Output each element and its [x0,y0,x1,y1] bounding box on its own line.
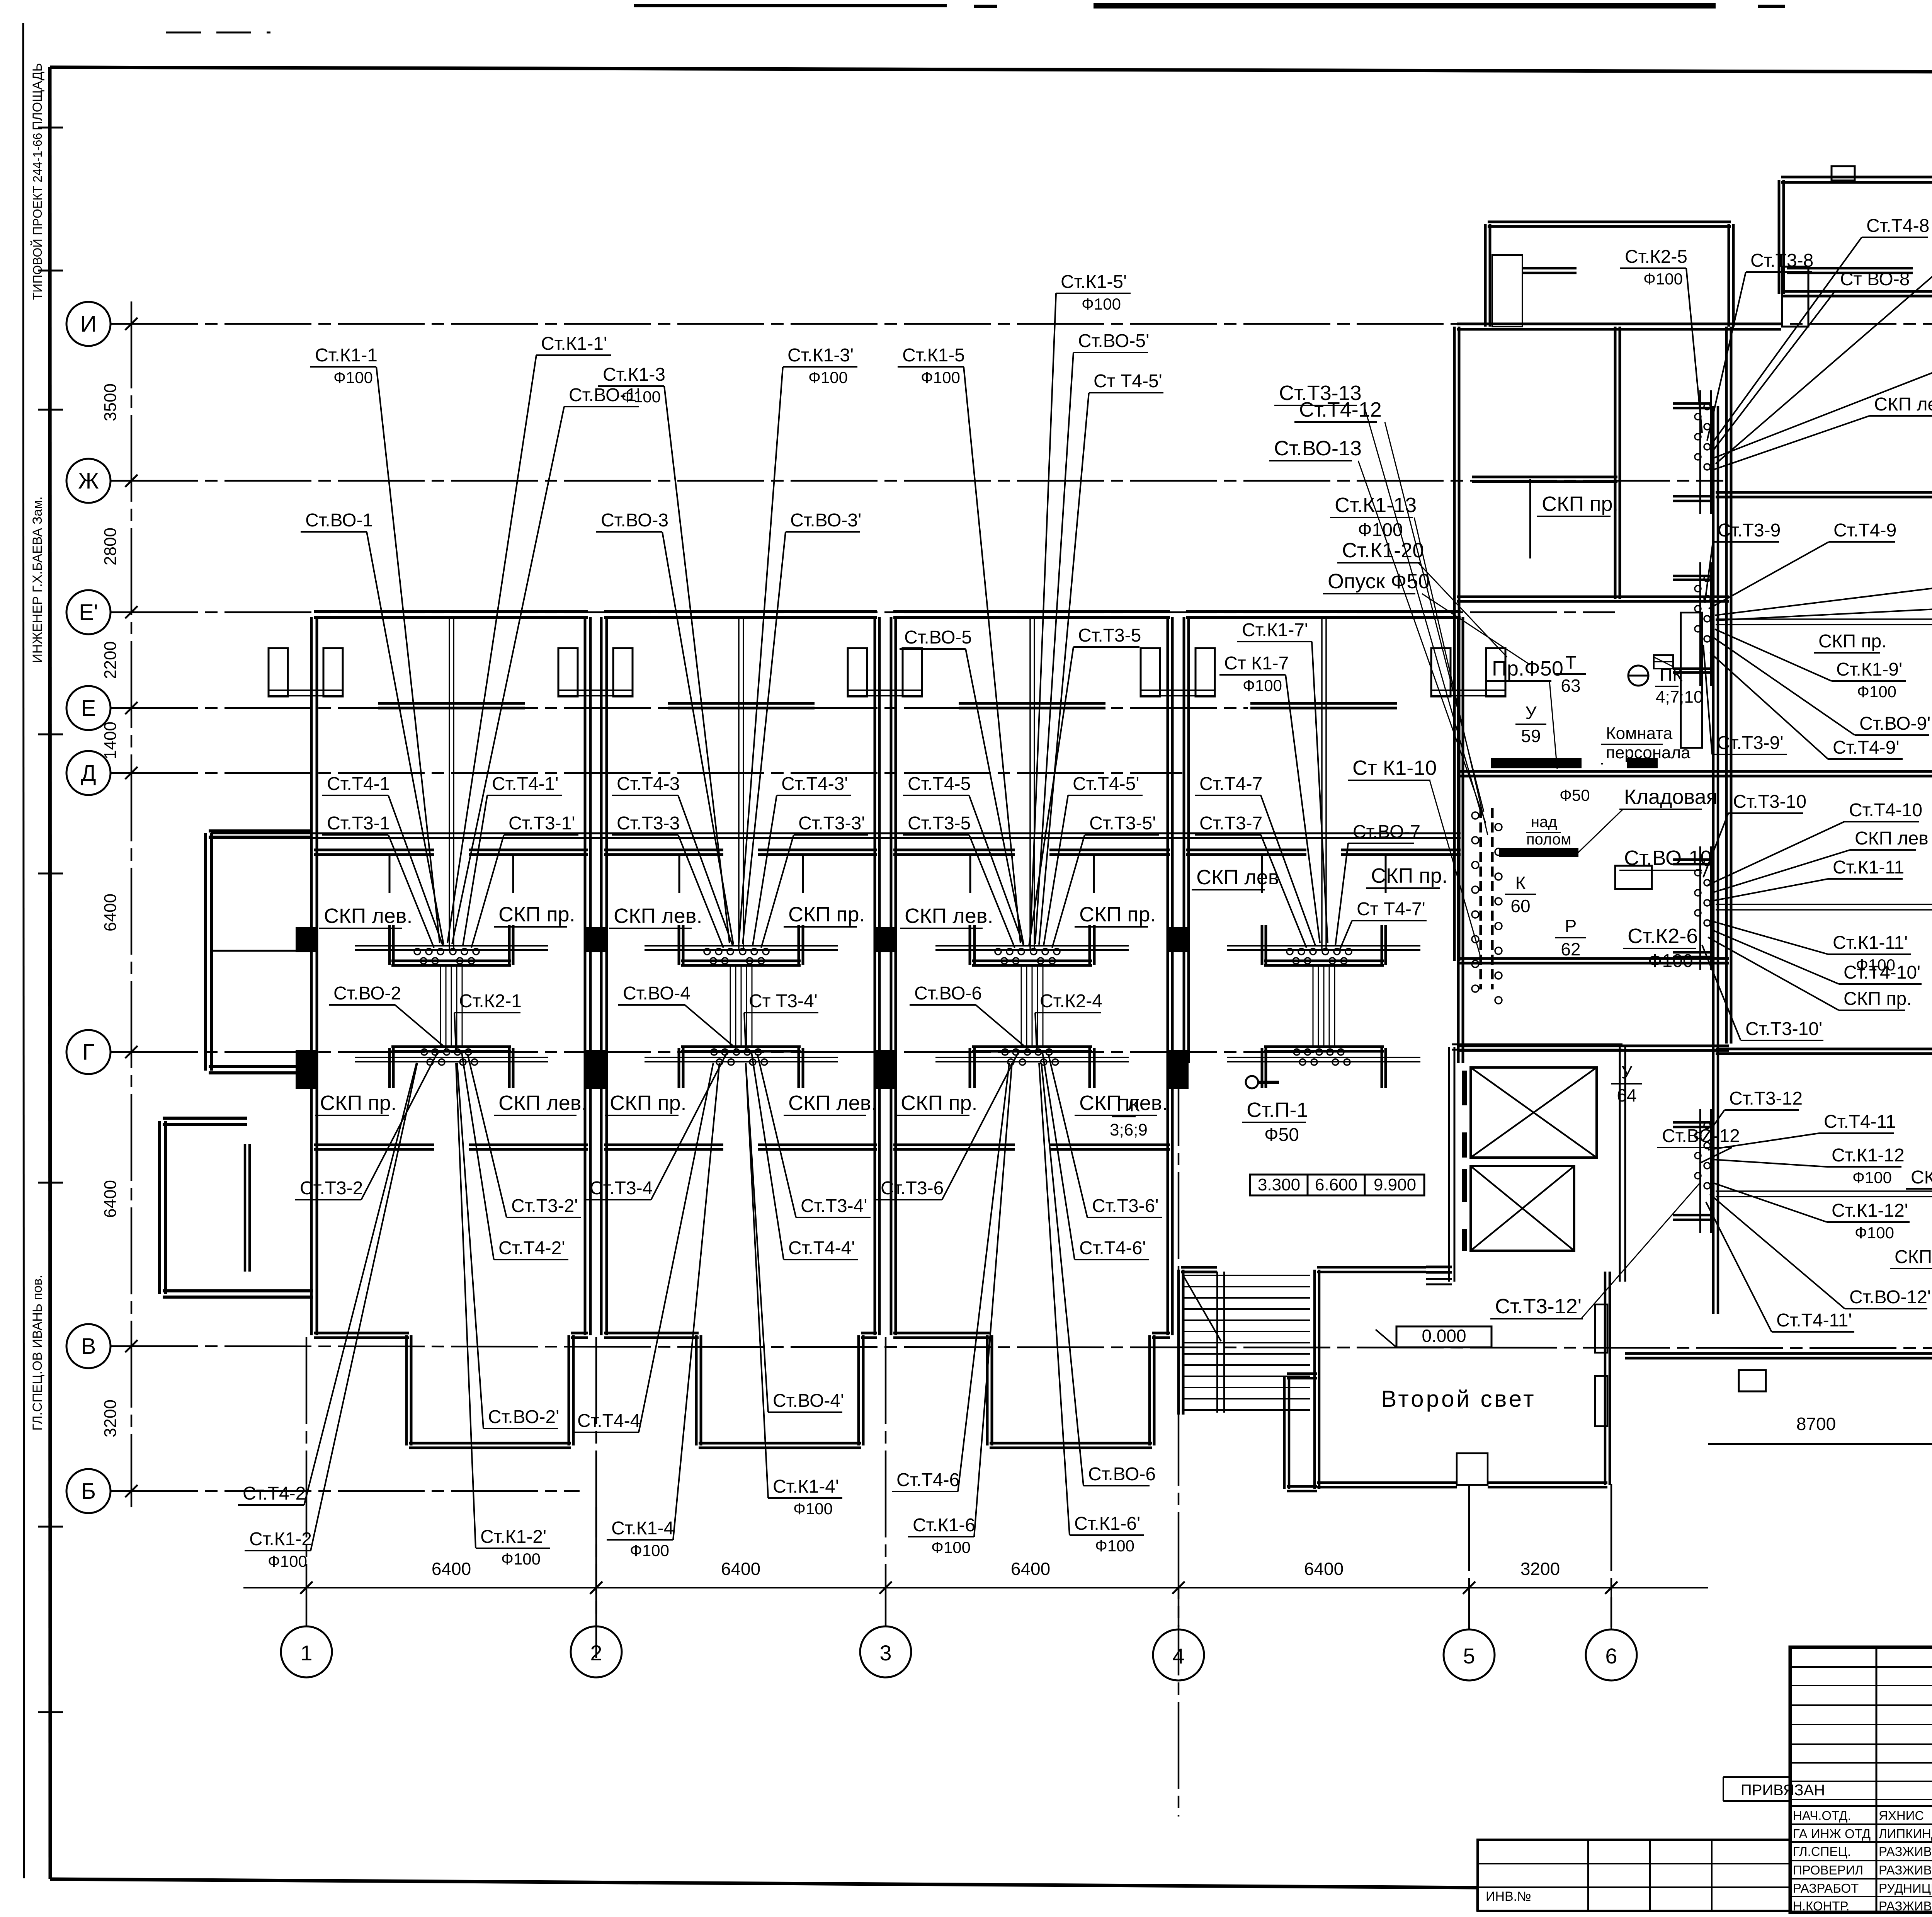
leader line Ст.К1-1 [376,367,440,943]
svg-text:6400: 6400 [101,1180,120,1218]
svg-text:Ст.Т3-2: Ст.Т3-2 [300,1178,363,1199]
svg-text:Ст.ВО-2': Ст.ВО-2' [488,1407,559,1427]
svg-text:Ст.Т3-8: Ст.Т3-8 [1750,250,1813,271]
svg-text:Ф50: Ф50 [1264,1125,1299,1145]
svg-text:Ст.К1-11': Ст.К1-11' [1833,933,1908,953]
svg-text:ПЛОЩАДЬ: ПЛОЩАДЬ [30,63,45,130]
leader line Ст.К1-5 [964,367,1020,943]
leader line Ст.ВО-3 [662,532,733,945]
svg-text:Ст.Т3-1: Ст.Т3-1 [327,813,390,834]
axis circle 5 [1444,1629,1495,1680]
module 1 walls [311,611,590,1448]
svg-text:1400: 1400 [101,722,120,759]
heavy pipe bars [1491,758,1658,889]
svg-text:Ст.Т3-6: Ст.Т3-6 [881,1178,944,1199]
svg-text:СКП лев.: СКП лев. [498,1091,587,1115]
tower block east [1779,166,1932,327]
svg-text:Ст.ВО-4: Ст.ВО-4 [623,983,690,1004]
leader line Ст.К1-1' [447,355,536,943]
svg-text:Ст.Т3-7: Ст.Т3-7 [1199,813,1262,834]
svg-text:СКП лев.: СКП лев. [1911,1167,1932,1188]
svg-text:ЯХНИС: ЯХНИС [1879,1808,1924,1823]
svg-text:Кладовая: Кладовая [1624,785,1718,809]
leader line Ст.Т3-5 [1029,647,1073,946]
svg-text:6.600: 6.600 [1315,1175,1357,1194]
svg-text:6400: 6400 [432,1559,471,1579]
dimension 8700 [1708,1414,1932,1450]
leader line Ст.Т3-2' [468,1054,507,1217]
leader line Ст.Т4-5' [1044,795,1068,945]
svg-text:Е: Е [81,696,96,721]
svg-text:Ст.К2-6: Ст.К2-6 [1628,924,1698,948]
module 4 upper riser circles [1287,948,1352,964]
axis circle Г [66,1030,111,1074]
svg-text:Ф100: Ф100 [501,1550,541,1568]
svg-text:СКП лев: СКП лев [1855,828,1929,849]
bottom dimension line [243,1559,1708,1594]
module 3 lower riser circles [1002,1049,1058,1065]
svg-text:РАЗЖИВИНА: РАЗЖИВИНА [1879,1844,1932,1859]
leader line Ст.Т3-5 [969,835,1015,948]
svg-text:Ст.Т3-13: Ст.Т3-13 [1279,381,1362,405]
svg-text:Ст.Т3-9: Ст.Т3-9 [1718,520,1781,541]
svg-text:Ст.Т3-5: Ст.Т3-5 [908,813,971,834]
svg-text:Ст.Т3-3: Ст.Т3-3 [617,813,680,834]
leader line Ст.Т3-6' [1048,1054,1087,1217]
svg-text:Р: Р [1565,916,1577,936]
axis circle Е [66,686,111,730]
svg-text:Ст.Т4-9': Ст.Т4-9' [1833,737,1900,758]
scanner edge artifacts top [634,2,1932,9]
svg-text:РАЗЖИВИНА: РАЗЖИВИНА [1879,1899,1932,1913]
svg-text:Ст.Т4-1: Ст.Т4-1 [327,774,390,794]
top wall link [1731,328,1781,331]
svg-text:СКП лев.: СКП лев. [905,904,993,928]
module 4 walls [1184,611,1463,1088]
svg-text:Ст.ВО-2: Ст.ВО-2 [333,983,401,1004]
svg-text:Ст.Т3-12': Ст.Т3-12' [1495,1295,1582,1318]
symbol ПК 4;7;10 [1628,666,1648,686]
svg-text:6400: 6400 [101,894,120,931]
svg-text:СКП пр.: СКП пр. [1079,903,1156,926]
svg-text:Д: Д [81,761,96,786]
leader line Ст.К1-3 [664,386,730,943]
svg-text:Ст.ВО-10: Ст.ВО-10 [1624,846,1712,870]
svg-text:Ж: Ж [78,468,99,494]
svg-text:Ст.К1-13: Ст.К1-13 [1335,494,1417,517]
svg-text:3200: 3200 [101,1399,120,1437]
wing riser cluster 1 (8-9) [1673,390,1711,514]
leader line Ст Т4-5' [1039,393,1089,945]
svg-text:Ф50: Ф50 [1560,786,1590,804]
svg-text:3: 3 [879,1641,891,1665]
svg-text:Ст.К1-5: Ст.К1-5 [902,345,965,366]
leader line Ст.Т4-4' [751,1050,784,1260]
svg-text:Ст.Т4-2: Ст.Т4-2 [243,1483,306,1504]
elevator car 2 [1471,1166,1574,1251]
svg-text:Ст.Т4-4: Ст.Т4-4 [577,1411,640,1431]
svg-text:ТИПОВОЙ ПРОЕКТ 244-1-66: ТИПОВОЙ ПРОЕКТ 244-1-66 [31,133,44,300]
svg-text:Ф100: Ф100 [921,368,960,386]
svg-text:Ст.К2-1: Ст.К2-1 [459,991,522,1011]
svg-text:Ст.К1-3': Ст.К1-3' [787,345,854,366]
svg-text:Ст.Т3-5: Ст.Т3-5 [1078,625,1141,646]
svg-text:СКП пр.: СКП пр. [788,903,865,926]
svg-text:Ф100: Ф100 [1855,1224,1894,1242]
svg-text:Е': Е' [79,600,98,625]
svg-text:Ст.К1-4: Ст.К1-4 [611,1518,674,1539]
module 1 upper riser circles [414,948,479,964]
svg-text:4: 4 [1172,1644,1184,1668]
svg-text:Ст.Т4-6': Ст.Т4-6' [1079,1238,1146,1258]
svg-text:6400: 6400 [721,1559,760,1579]
west end walls [160,831,313,1297]
module 4 lower riser circles [1294,1049,1350,1065]
svg-text:СКП пр.: СКП пр. [1818,631,1886,652]
svg-text:Ст.П-1: Ст.П-1 [1247,1098,1308,1122]
svg-text:Ст.Т3-4: Ст.Т3-4 [590,1178,653,1199]
svg-text:СКП лев.: СКП лев. [788,1091,877,1115]
svg-text:Второй свет: Второй свет [1381,1386,1536,1412]
svg-text:Ст К1-10: Ст К1-10 [1352,756,1437,780]
svg-text:3;6;9: 3;6;9 [1110,1120,1148,1139]
svg-text:Ст.Т3-9': Ст.Т3-9' [1717,733,1784,753]
level marks 3.300 6.600 9.900 [1250,1175,1424,1195]
svg-text:Ст.Т4-11': Ст.Т4-11' [1776,1310,1852,1331]
leader line Ст.Т4-3' [753,795,777,945]
wing pipe runs [1716,614,1932,1201]
svg-text:СКП лев: СКП лев [1196,866,1279,889]
svg-text:Ст.Т4-5': Ст.Т4-5' [1073,774,1139,794]
svg-text:В: В [81,1334,96,1359]
leader line Ст.Т3-4' [757,1054,796,1217]
svg-text:Ст.ВО-3: Ст.ВО-3 [601,510,668,531]
svg-text:СКП пр.: СКП пр. [901,1091,978,1115]
svg-text:Ст.К1-2': Ст.К1-2' [480,1527,546,1547]
svg-text:СКП пр.: СКП пр. [1542,492,1619,516]
leader line Ст.Т4-6 [958,1063,1009,1491]
axis circle 2 [571,1626,622,1677]
svg-text:ПРИВЯЗАН: ПРИВЯЗАН [1741,1782,1825,1799]
corridor axis piers [296,927,316,952]
leader line Ст.ВО-3' [743,532,786,944]
svg-text:Ст.ВО-3': Ст.ВО-3' [790,510,861,531]
svg-text:Н.КОНТР.: Н.КОНТР. [1793,1899,1849,1913]
svg-text:СКП пр.: СКП пр. [320,1091,397,1115]
leader line Ст.К1-3' [739,367,783,943]
leader line Ст.ВО-6 [976,1005,1027,1048]
left margin rotated stamp text [30,63,45,1431]
svg-text:5: 5 [1463,1644,1475,1668]
leader line Ст.Т4-1 [388,795,443,945]
svg-text:Ст.К1-12': Ст.К1-12' [1832,1200,1908,1221]
axis circle 3 [860,1626,911,1677]
svg-text:ПК: ПК [1117,1095,1140,1115]
svg-text:62: 62 [1561,939,1580,959]
svg-text:2: 2 [590,1641,602,1665]
svg-text:И: И [80,312,97,337]
paper top thin lines [166,32,270,34]
svg-text:Ф100: Ф100 [931,1538,971,1556]
svg-text:ГЛ.СПЕЦ.: ГЛ.СПЕЦ. [1793,1844,1851,1859]
axis circle Д [66,751,111,795]
leader line Ст.Т3-7 [1261,835,1306,948]
svg-text:Ф100: Ф100 [630,1541,669,1559]
leader line Ст.Т4-4 [639,1063,713,1432]
svg-text:Ст.К1-6: Ст.К1-6 [913,1515,975,1536]
svg-text:Ст.Т3-12: Ст.Т3-12 [1729,1088,1803,1109]
module 2 lower riser circles [711,1049,767,1065]
module 2 upper riser circles [704,948,769,964]
svg-text:Ст.К1-12: Ст.К1-12 [1832,1145,1905,1166]
svg-text:ГА ИНЖ ОТД: ГА ИНЖ ОТД [1793,1827,1871,1841]
svg-text:Ст.ВО-6: Ст.ВО-6 [1088,1464,1156,1485]
svg-text:ИНВ.№: ИНВ.№ [1486,1889,1531,1904]
stairs [1179,1267,1310,1415]
svg-text:ГЛ.СПЕЦ.ОВ ИВАНЬ пов.: ГЛ.СПЕЦ.ОВ ИВАНЬ пов. [30,1275,45,1431]
svg-text:3.300: 3.300 [1258,1175,1300,1194]
leader line Ст.Т3-4 [651,1052,727,1200]
svg-text:8700: 8700 [1796,1414,1836,1434]
svg-text:Ст.Т4-5: Ст.Т4-5 [908,774,971,794]
svg-text:Ст.Т4-2': Ст.Т4-2' [498,1238,565,1258]
svg-text:6400: 6400 [1011,1559,1050,1579]
svg-text:3500: 3500 [101,383,120,421]
leader line Ст.Т4-2 [304,1063,417,1505]
leader line Ст.Т4-7 [1261,795,1315,945]
svg-text:2200: 2200 [101,641,120,679]
module 2 walls [601,611,879,1448]
svg-text:СКП лев: СКП лев [1874,394,1932,415]
svg-text:59: 59 [1521,726,1541,746]
svg-text:СКП пр.: СКП пр. [1844,989,1912,1009]
axis circle 1 [281,1626,332,1677]
svg-text:Ст.К1-9': Ст.К1-9' [1836,659,1902,680]
leader line Ст.Т3-2 [361,1052,438,1200]
svg-text:СКП пр.: СКП пр. [1371,864,1448,887]
leader line Ст.Т3-1' [471,835,504,948]
leader line Ст.К1-5' [1030,293,1056,943]
svg-text:3200: 3200 [1520,1559,1560,1579]
svg-text:Ф100: Ф100 [1857,683,1896,701]
leader line Ст.Т3-6 [942,1052,1019,1200]
svg-text:Ст.Т4-6: Ст.Т4-6 [896,1470,959,1490]
wing riser cluster 3 (10-11) [1673,846,1711,970]
svg-text:Ст.ВО-1: Ст.ВО-1 [305,510,373,531]
vertical axis lines [306,1059,1932,1817]
svg-text:Ст.К1-11: Ст.К1-11 [1833,857,1904,878]
svg-text:У: У [1621,1062,1633,1082]
svg-text:СКП лев.: СКП лев. [324,904,413,928]
svg-text:Ст.Т3-2': Ст.Т3-2' [511,1196,578,1216]
svg-text:над: над [1531,814,1557,831]
module 3 vestibule piers [848,648,1215,696]
axis circle И [66,302,111,346]
svg-text:Ст.ВО-5: Ст.ВО-5 [904,627,972,648]
svg-text:СКП лев.: СКП лев. [614,904,702,928]
wing riser cluster 4 (12) [1673,1109,1711,1233]
svg-text:ЛИПКИНД: ЛИПКИНД [1879,1827,1932,1841]
svg-text:Ст.Т3-6': Ст.Т3-6' [1092,1196,1159,1216]
axis circle 6 [1586,1629,1637,1680]
svg-text:Ст.ВО-4': Ст.ВО-4' [773,1391,844,1411]
leader line Ст.ВО-4 [685,1005,736,1048]
svg-text:Ф100: Ф100 [1358,520,1403,540]
svg-text:ПРОВЕРИЛ: ПРОВЕРИЛ [1793,1863,1863,1877]
svg-text:Ст.Т3-10': Ст.Т3-10' [1745,1019,1822,1039]
leader line Ст.ВО-1 [367,532,444,945]
svg-text:Ф100: Ф100 [1648,951,1693,971]
svg-text:Ст.Т3-1': Ст.Т3-1' [509,813,575,834]
svg-text:Ст.ВО-13: Ст.ВО-13 [1274,437,1362,460]
leader line Ст.ВО-5 [966,649,1024,944]
svg-text:персонала: персонала [1606,743,1690,762]
leader line Ст.Т4-5 [969,795,1024,945]
leader line Ст.К1-2' [456,1063,476,1548]
svg-text:НАЧ.ОТД.: НАЧ.ОТД. [1793,1808,1851,1823]
svg-text:Ст.Т4-11: Ст.Т4-11 [1824,1112,1896,1132]
leader line Ст.Т4-2' [461,1050,494,1260]
svg-text:0.000: 0.000 [1422,1326,1466,1346]
leader line Ст Т4-7' [1339,921,1352,951]
svg-text:Т: Т [1565,652,1576,672]
svg-text:РАЗРАБОТ: РАЗРАБОТ [1793,1881,1859,1895]
svg-text:Ст.ВО-12': Ст.ВО-12' [1849,1287,1931,1308]
svg-text:Ст.К1-5': Ст.К1-5' [1061,272,1127,292]
axis circle 4 [1153,1629,1204,1680]
svg-text:Ст.Т3-10: Ст.Т3-10 [1733,792,1806,812]
leader line Ст.ВО-6 [1041,1063,1083,1486]
svg-text:Ст.К1-2: Ст.К1-2 [249,1529,312,1549]
svg-text:Комната: Комната [1606,724,1673,743]
axis circle Е' [66,590,111,634]
module 3 upper riser circles [995,948,1060,964]
svg-text:РАЗЖИВИНА: РАЗЖИВИНА [1879,1863,1932,1877]
vertical dimension line left [101,301,138,1507]
central core walls [1454,324,1731,1050]
wing riser cluster 2 (9) [1673,562,1711,686]
axis circle Б [66,1469,111,1513]
tower block west [1485,222,1733,329]
leader line Ст.К1-6' [1039,1063,1070,1535]
svg-text:Ф100: Ф100 [1243,676,1282,695]
svg-text:Ст.К1-1': Ст.К1-1' [541,334,607,354]
svg-text:63: 63 [1561,676,1580,696]
axis circle В [66,1324,111,1368]
svg-text:Ст.К1-6': Ст.К1-6' [1074,1514,1140,1534]
svg-text:60: 60 [1510,896,1530,916]
svg-text:2800: 2800 [101,528,120,565]
leader line Ст.К1-7' [1312,642,1328,943]
svg-text:Ф100: Ф100 [1643,270,1683,288]
svg-text:СКП пр.: СКП пр. [498,903,575,926]
svg-text:Ф100: Ф100 [793,1500,833,1518]
module 3 walls [891,611,1172,1448]
svg-text:Ст.Т4-7: Ст.Т4-7 [1199,774,1262,794]
svg-text:Ст.К1-7': Ст.К1-7' [1242,620,1308,640]
horizontal axis lines [111,324,1932,1491]
svg-text:Ст.К1-3: Ст.К1-3 [603,364,665,385]
leader line Ст.ВО-2' [457,1063,483,1428]
svg-text:Ст.Т4-8: Ст.Т4-8 [1866,216,1929,236]
leader line Ст.К1-2 [311,1063,417,1551]
leader line Ст.ВО-1' [452,407,564,944]
module 2 vestibule piers [558,648,922,696]
leader line Ст.К1-6 [974,1063,1012,1537]
leader line Ст.Т4-3 [678,795,733,945]
svg-text:Ст.Т4-9: Ст.Т4-9 [1833,520,1896,541]
svg-text:Ст.Т4-10: Ст.Т4-10 [1849,800,1922,821]
svg-text:Ст.Т4-3': Ст.Т4-3' [781,774,848,794]
leader line Ст.К2-4 [1035,1013,1037,1049]
leader line Ст.Т3-1 [388,835,434,948]
right wing walls [1625,326,1932,1391]
leader line Ст.ВО-2 [395,1005,446,1048]
svg-text:Ст.К2-4: Ст.К2-4 [1040,991,1102,1011]
leader line Ст.Т4-6' [1042,1050,1075,1260]
leader line Ст.К1-4 [673,1063,719,1540]
svg-text:Ст.Т4-1': Ст.Т4-1' [492,774,559,794]
svg-text:Ст.Т4-3: Ст.Т4-3 [617,774,680,794]
elevator car 1 [1471,1067,1597,1158]
svg-text:Ст.К1-1: Ст.К1-1 [315,345,378,366]
svg-text:Ст.ВО-6: Ст.ВО-6 [914,983,982,1004]
svg-text:СКП пр.: СКП пр. [610,1091,687,1115]
svg-text:Ст.К1-4': Ст.К1-4' [773,1476,839,1497]
central riser strip [1472,808,1502,1004]
title block [1478,1647,1932,1914]
svg-text:Ст Т4-5': Ст Т4-5' [1094,371,1162,392]
entrance hall walls [1284,1267,1610,1491]
svg-text:Ст Т4-7': Ст Т4-7' [1357,899,1425,919]
svg-text:Ст.К1-20: Ст.К1-20 [1342,539,1424,562]
leader line Ст.Т3-3' [761,835,794,948]
svg-text:Ст.ВО-9': Ст.ВО-9' [1859,713,1930,734]
svg-text:РУДНИЦКАЯ: РУДНИЦКАЯ [1879,1881,1932,1895]
svg-text:Г: Г [82,1040,94,1065]
module 4 vestibule piers [1141,648,1505,696]
svg-text:Опуск Ф50: Опуск Ф50 [1328,570,1430,593]
svg-text:4;7;10: 4;7;10 [1656,688,1703,707]
leader line Ст.К1-4' [746,1063,768,1498]
leader line Ст.К2-1 [454,1013,456,1049]
svg-text:Ст.Т4-4': Ст.Т4-4' [788,1238,855,1258]
leader line Ст.Т4-1' [463,795,487,945]
svg-text:Ст.Т3-3': Ст.Т3-3' [798,813,865,834]
svg-text:Б: Б [81,1479,96,1504]
svg-text:Ст.К2-5: Ст.К2-5 [1625,247,1687,267]
svg-text:Ст.ВО-7: Ст.ВО-7 [1353,822,1420,842]
svg-text:Ф100: Ф100 [333,368,373,386]
svg-text:Ст.Т3-5': Ст.Т3-5' [1089,813,1156,834]
svg-text:К: К [1515,873,1526,893]
svg-text:Ст.ВО-12: Ст.ВО-12 [1662,1126,1740,1146]
svg-text:СКП пр: СКП пр [1895,1247,1932,1267]
leader line Ст Т3-4' [744,1013,746,1049]
axis circle Ж [66,459,111,503]
leader line Ст.ВО-5' [1035,352,1073,944]
leader line Ст.ВО-4' [746,1063,768,1412]
svg-text:1: 1 [300,1641,312,1665]
svg-text:Ст ВО-8: Ст ВО-8 [1840,269,1910,289]
leader line Ст.ВО-7 [1335,843,1348,945]
room divider wall y2162 [211,833,1461,834]
svg-text:ИНЖЕНЕР Г.Х.БАЕВА Зам.: ИНЖЕНЕР Г.Х.БАЕВА Зам. [30,496,45,663]
leader line Ст К1-7 [1286,675,1320,943]
svg-text:6400: 6400 [1304,1559,1344,1579]
svg-text:Ст К1-7: Ст К1-7 [1224,653,1289,674]
svg-text:Ст Т3-4': Ст Т3-4' [749,991,818,1011]
